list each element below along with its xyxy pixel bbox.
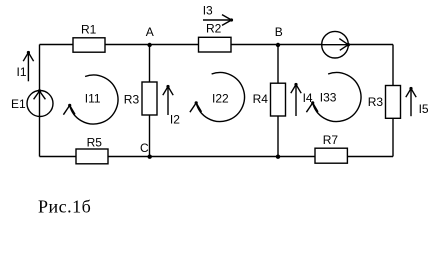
- svg-text:R5: R5: [87, 136, 103, 150]
- wire: [392, 118, 394, 156]
- current arrow I1: [17, 51, 34, 81]
- wire: [392, 45, 394, 86]
- svg-text:R3: R3: [368, 95, 384, 109]
- svg-text:C: C: [140, 141, 149, 155]
- mesh current I11: [63, 75, 118, 124]
- resistor R5: [76, 136, 108, 164]
- svg-text:A: A: [146, 25, 154, 39]
- current source: [322, 31, 350, 58]
- svg-text:I33: I33: [320, 90, 337, 104]
- resistor R7: [315, 133, 347, 163]
- svg-text:I3: I3: [203, 3, 213, 17]
- wire: [39, 45, 41, 91]
- svg-text:I22: I22: [212, 92, 229, 106]
- svg-text:R4: R4: [253, 92, 269, 106]
- wire: [40, 156, 77, 158]
- mesh current I22: [190, 73, 245, 122]
- current arrow I2: [163, 85, 180, 127]
- wire: [39, 117, 41, 157]
- wire: [40, 44, 74, 46]
- wire: [348, 44, 393, 46]
- svg-text:Рис.1б: Рис.1б: [38, 197, 91, 217]
- svg-text:I5: I5: [419, 102, 429, 116]
- svg-text:R7: R7: [323, 133, 339, 147]
- wire: [105, 44, 199, 46]
- mesh current I33: [306, 73, 361, 122]
- wire: [149, 45, 151, 83]
- svg-text:B: B: [275, 25, 283, 39]
- svg-text:E1: E1: [11, 97, 26, 111]
- node (junction below B): [276, 155, 280, 159]
- node C: [140, 141, 152, 159]
- svg-text:I2: I2: [170, 113, 180, 127]
- current arrow I3: [203, 3, 233, 25]
- svg-text:R1: R1: [81, 23, 97, 37]
- node B: [275, 25, 283, 47]
- svg-text:I1: I1: [17, 65, 27, 79]
- wire: [277, 45, 279, 84]
- current arrow I4: [291, 83, 313, 116]
- wire: [108, 156, 315, 158]
- wire: [149, 115, 151, 157]
- resistor R4: [253, 83, 286, 116]
- voltage source E1: [11, 89, 53, 116]
- resistor R3 (middle): [124, 82, 157, 115]
- current arrow I5: [406, 87, 429, 116]
- wire: [347, 156, 393, 158]
- svg-text:R3: R3: [124, 92, 140, 106]
- resistor R2: [199, 21, 232, 52]
- resistor R1: [73, 23, 105, 53]
- svg-text:R2: R2: [206, 21, 222, 35]
- wire: [277, 116, 279, 157]
- node A: [146, 25, 154, 47]
- wire: [231, 44, 322, 46]
- svg-text:I11: I11: [85, 92, 101, 106]
- resistor R3 (right): [368, 86, 401, 119]
